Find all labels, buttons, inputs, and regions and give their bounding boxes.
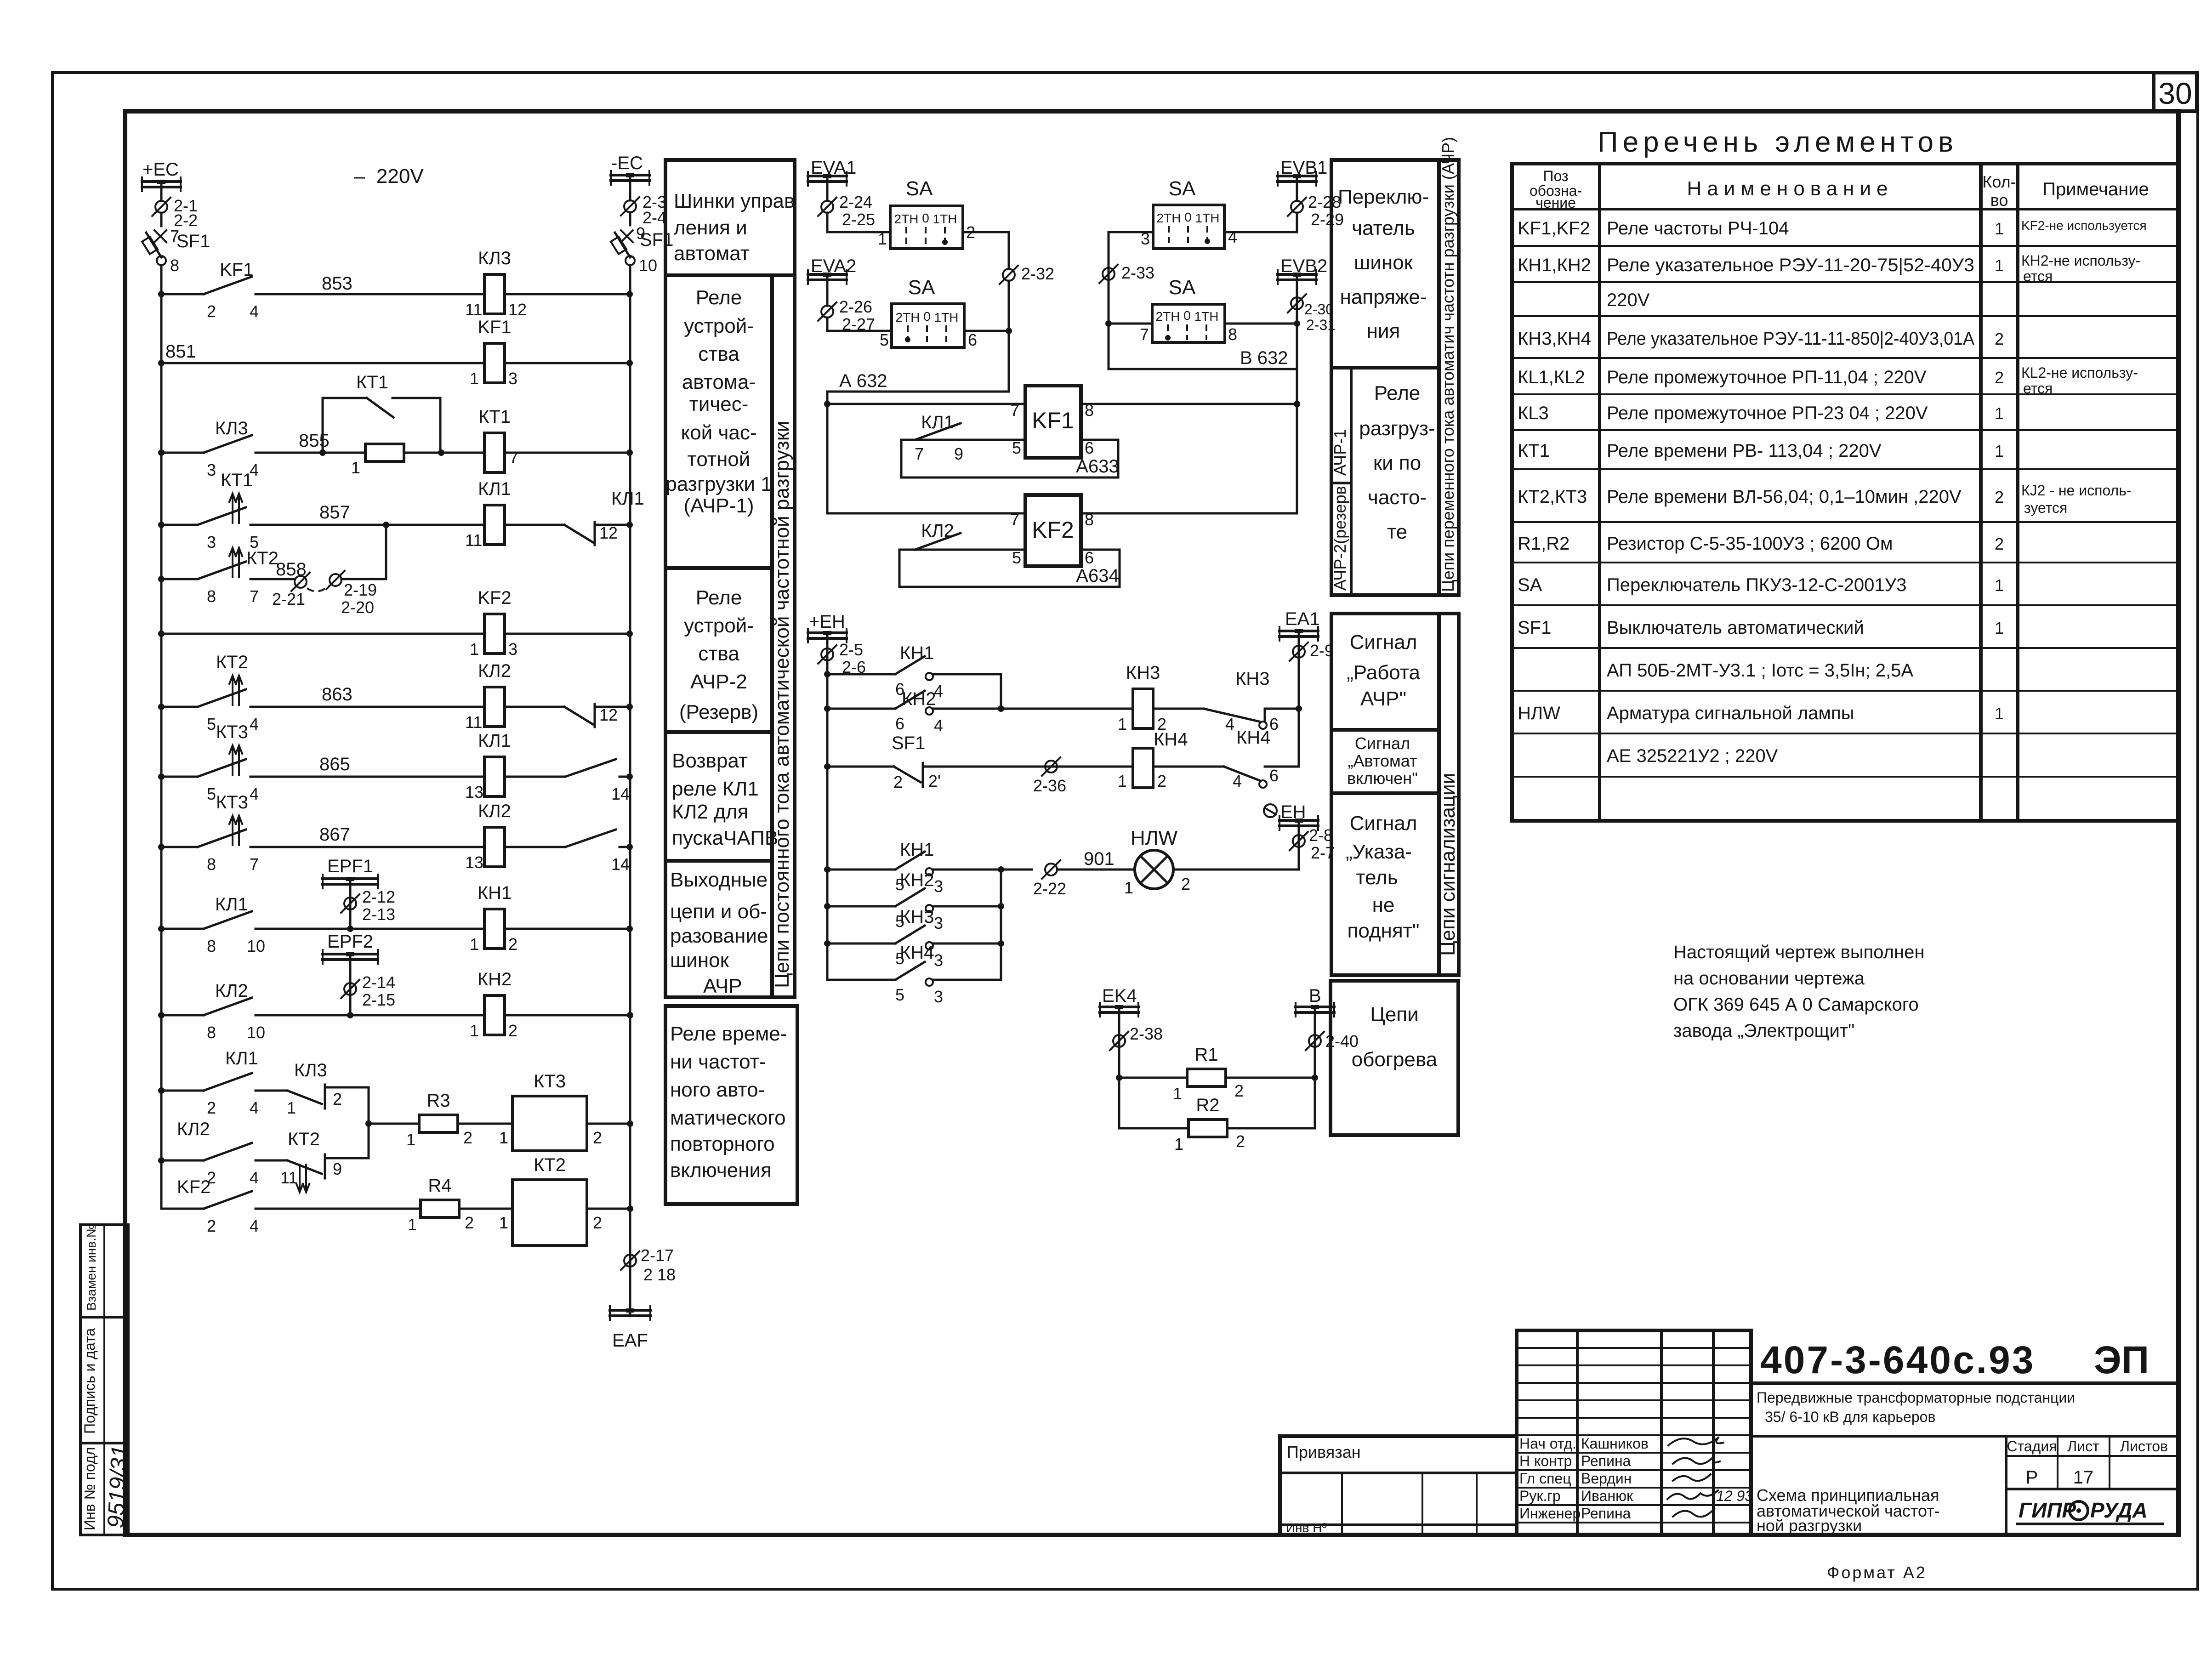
terminal circle 2-38 <box>1110 1024 1163 1050</box>
rung 865: timed contact KT3, coil KL1 13, make contact 14 <box>158 722 633 803</box>
terminal circle 2-22 and wire 901 <box>998 849 1135 980</box>
contact KH1 6-4 <box>824 643 1001 709</box>
rung: contact KL2 2-4, timed break contact KT2 11-9 <box>158 1119 342 1192</box>
node EVB2 bus terminal <box>1278 256 1327 513</box>
connector X9 <box>621 224 645 243</box>
relay coil KL2 <box>484 687 505 727</box>
svg-text:ной разгрузки: ной разгрузки <box>1757 1516 1862 1535</box>
node -EC bus terminal <box>611 153 649 200</box>
relay coil KL1 13 <box>484 757 505 796</box>
contact KH2 6-4 and rung to KH3 <box>824 689 1133 735</box>
node EK4 bus terminal <box>1100 986 1138 1128</box>
frequency relay box KF1 <box>1025 386 1081 458</box>
contact KH1 6-4 blade <box>895 656 925 674</box>
breaker SF1 (right) <box>611 230 673 275</box>
rung 857: timed contact KT1, coil KL1, break contact KL1 <box>158 470 644 579</box>
row KT1 <box>1518 441 2004 461</box>
svg-text:Передвижные трансформаторные п: Передвижные трансформаторные подстанции <box>1757 1389 2075 1406</box>
svg-text:Лист: Лист <box>2067 1438 2099 1455</box>
svg-text:Привязан: Привязан <box>1287 1443 1361 1461</box>
terminal circle 2-5 2-6 <box>818 640 866 676</box>
contact KL1 8-10 <box>204 911 252 929</box>
terminal circle 2-17 2-18 on bus tail <box>621 1246 676 1313</box>
break contact KL3 1-2 <box>287 1091 322 1104</box>
switch SA box 1-2 (1ТН) <box>890 206 963 249</box>
terminal circle 2-36 <box>1045 761 1057 773</box>
terminal circle 2-30 2-31 <box>1288 294 1336 333</box>
contact KH3 5-3 <box>824 907 1004 970</box>
terminal circle 2-8 2-7 <box>1290 826 1335 862</box>
left margin stamp: Взамен инв.№ <box>80 1224 128 1317</box>
section label box: Выходные цепи и образование шинок АЧР <box>665 861 772 997</box>
break contact KL2 12 <box>564 707 593 724</box>
wire В632 <box>1109 348 1297 369</box>
contact KF1 2-4 <box>204 277 252 294</box>
svg-text:Репина: Репина <box>1581 1453 1631 1469</box>
svg-text:Репина: Репина <box>1581 1505 1631 1522</box>
section label box: Шинки управления и автомат <box>665 160 795 275</box>
relay coil KL3 <box>484 274 505 314</box>
wire to switch SA (1ТН upper) <box>827 231 890 233</box>
svg-text:Вердин: Вердин <box>1581 1470 1632 1487</box>
contact KL2 8-10 <box>204 998 252 1015</box>
row KH1,KH2 <box>1518 252 2140 284</box>
vertical strip: Цепи сигнализации <box>1437 614 1459 975</box>
indicating relay coil KH4 <box>1133 748 1153 788</box>
svg-text:Рук.гр: Рук.гр <box>1519 1488 1561 1504</box>
svg-text:Стадия: Стадия <box>2007 1438 2057 1455</box>
rung: relay coil KF2 <box>158 588 633 659</box>
resistor (rung 855) <box>365 444 404 461</box>
timed contact KT3 8-7 <box>198 830 246 847</box>
title block: signatures table <box>1517 1330 1753 1535</box>
section label box: Сигнал Автомат включен <box>1331 730 1439 793</box>
rung 851: relay coil KF1 <box>158 317 633 388</box>
contact KH2 5-3 <box>824 870 1004 932</box>
row KH3,KH4 <box>1518 329 2004 349</box>
svg-text:Инженер: Инженер <box>1519 1505 1581 1522</box>
terminal circle 2-3 2-4 <box>621 193 666 227</box>
table header texts <box>1530 168 2149 211</box>
auxiliary contact SF1 2-2' <box>894 767 921 782</box>
note text <box>1673 942 1924 1041</box>
left margin stamp: Подпись и дата <box>80 1317 128 1443</box>
inner working frame <box>125 111 2178 1535</box>
timed contact KT2 5-4 <box>198 689 246 707</box>
rung 863: timed contact KT2, coil KL2, break contact 12 <box>158 652 633 733</box>
resistor R3 <box>419 1115 458 1132</box>
contact KL2 2-4 <box>204 1143 252 1160</box>
row KL3 <box>1518 403 2004 423</box>
terminal circles 2-19 2-20 <box>330 574 341 586</box>
section label box: Возврат реле KL1 KL2 для пуска ЧАПВ <box>665 732 778 861</box>
contact KH4 4-6 blade <box>1224 767 1259 780</box>
svg-text:35/ 6-10 кВ для карьеров: 35/ 6-10 кВ для карьеров <box>1765 1409 1935 1425</box>
resistor R2 branch <box>1119 1095 1315 1154</box>
wire with terminal circle 2-33 <box>1099 232 1154 369</box>
title block: document designation 407-3-640с.93 ЭП <box>1751 1330 2178 1535</box>
section label box: Сигнал Указатель не поднят <box>1331 793 1439 975</box>
contact KL2 <box>915 533 961 550</box>
signal lamp HLW <box>1124 827 1299 897</box>
title block: object name <box>1751 1389 2178 1436</box>
wire KF2 rung <box>827 512 1025 515</box>
contact KH3 5-3 blade <box>895 926 925 944</box>
wire SA2 to node <box>964 330 1009 332</box>
latch loop wire А633 <box>901 440 1118 477</box>
terminal circle 2-26 2-27 <box>818 297 875 334</box>
section label box: Цепи обогрева <box>1331 981 1458 1135</box>
page number box 30 <box>2154 73 2197 111</box>
time relay coil KT1 <box>484 433 505 472</box>
latch loop wire А634 <box>899 550 1120 587</box>
switch SA contact 5-6 <box>880 276 977 349</box>
relay coil KL2 13 <box>484 827 505 867</box>
svg-text:Гл спец: Гл спец <box>1519 1470 1571 1487</box>
signal lamp HLW circle <box>1135 850 1173 889</box>
svg-text:Н контр: Н контр <box>1519 1453 1572 1469</box>
rung 867: timed contact KT3, coil KL2 13, make contact 14 <box>158 792 633 874</box>
svg-text:Нач отд.: Нач отд. <box>1519 1435 1576 1452</box>
wire to switch SA (2ТН lower-left) <box>827 330 892 332</box>
breaker SF1 (left) <box>142 231 210 275</box>
wire to drop node <box>1081 403 1297 405</box>
switch SA contact 7-8 <box>1109 276 1300 344</box>
row SF1 <box>1518 618 2004 638</box>
title block: left attach table <box>1280 1436 1517 1535</box>
time relay KT3 <box>512 1096 587 1151</box>
switch SA box 3-4 (1ТН) <box>1153 205 1224 249</box>
make contact KL1 14 <box>565 759 616 777</box>
rung 853: contact KF1 + relay coil KL3 <box>158 248 633 321</box>
indicating relay coil KH3 <box>1133 689 1153 728</box>
contact KL3 3-4 <box>204 435 252 453</box>
row HLW <box>1518 703 2004 723</box>
switch SA contact 3-4 <box>1109 177 1297 249</box>
node EVA1 bus terminal <box>808 158 856 201</box>
relay coil KL1 <box>484 505 505 545</box>
svg-text:ГИПР: ГИПР <box>2019 1498 2076 1522</box>
vertical strip: Цепи переменного тока автоматич частотн разгрузки (АЧР) <box>1439 137 1459 595</box>
node B bus terminal <box>1296 986 1334 1128</box>
wire from SA1 to 2-32 <box>963 232 1009 269</box>
resistor R1 box <box>1187 1069 1226 1086</box>
svg-text:12 93: 12 93 <box>1716 1488 1753 1504</box>
terminal circle 2-9 <box>1290 641 1334 661</box>
timed contact KT2 8-7 <box>198 562 246 579</box>
make contact KL2 14 <box>565 830 616 847</box>
section label box: Реле устройства АЧР-1 <box>665 275 772 568</box>
rung: contact KF2 2-4, resistor R4, time relay KT2 <box>161 1155 633 1245</box>
title block: stage/sheet cells <box>2006 1436 2178 1535</box>
contact KH2 5-3 blade <box>895 888 925 906</box>
break contact KL1 12 <box>564 525 593 542</box>
break contact KT1 bypass <box>323 398 367 453</box>
svg-text:Иванюк: Иванюк <box>1581 1488 1633 1504</box>
rung: contact KL1 2-4, break contact KL3 1-2, resistor R3, time relay KT3 <box>158 1048 633 1158</box>
svg-text:РУДА: РУДА <box>2090 1498 2148 1522</box>
terminal circle 2-32 <box>1000 264 1054 392</box>
section label box: Переключатель шинок напряжения <box>1331 160 1439 368</box>
contact KF2 2-4 <box>204 1191 252 1209</box>
rung: contact KL1 8-10, flag EPF1, coil KH1 <box>158 856 633 955</box>
node +EC bus terminal <box>142 159 181 201</box>
contact KL1 7-9 <box>915 423 961 440</box>
relay coil KF2 <box>484 614 505 654</box>
row KF1,KF2 <box>1518 218 2147 239</box>
section label box: Реле разгрузки по частоте with АЧР-1 / АЧР-2 (резерв) substrip <box>1331 368 1439 595</box>
terminal circle 2-1 2-2 <box>152 196 198 230</box>
frequency relay KF2 with latch loop А634 <box>827 495 1297 587</box>
svg-text:Формат А2: Формат А2 <box>1827 1563 1927 1582</box>
frequency relay KF1 with latch loop А633 <box>827 386 1300 477</box>
title block: drawing name <box>1757 1486 1940 1535</box>
switch SA contact 1-2 <box>878 177 975 249</box>
vertical strip: Цепи постоянного тока автоматической частотной разгрузки <box>771 275 795 997</box>
node EA1 bus terminal <box>1279 609 1320 767</box>
row SA <box>1518 575 2004 595</box>
contact KH3 4-6 <box>1204 669 1302 733</box>
timed contact KT1 3-5 <box>198 507 246 525</box>
contact KH2 6-4 blade <box>895 691 925 709</box>
section label box: Реле устройства АЧР-2 (резерв) <box>665 568 772 732</box>
row KT2,KT3 <box>1518 482 2132 516</box>
connector X7 <box>154 227 179 245</box>
svg-text:17: 17 <box>2073 1467 2094 1488</box>
rung: contact KL2 8-10, flag EPF2, coil KH2 <box>158 932 633 1042</box>
terminal circle 2-28 2-29 <box>1288 193 1344 232</box>
node EVA2 bus terminal <box>808 256 856 306</box>
svg-text:Р: Р <box>2026 1467 2038 1488</box>
frequency relay box KF2 <box>1025 495 1081 566</box>
row R1,R2 <box>1518 534 2004 554</box>
resistor R1 branch <box>1116 1045 1318 1103</box>
indicating relay coil KH3 <box>1118 663 1204 733</box>
terminal circle 2-12 2-13 <box>344 898 356 909</box>
terminal circle 2-14 2-15 <box>344 983 356 995</box>
terminal circle 2-24 2-25 <box>818 193 875 232</box>
terminal circle 2-40 <box>1306 1032 1359 1051</box>
contact KL1 2-4 <box>204 1073 252 1091</box>
node +EH bus terminal <box>808 612 847 980</box>
relay coil KF1 <box>484 343 505 383</box>
element table grid <box>1512 164 2178 821</box>
svg-text:407-3-640с.93: 407-3-640с.93 <box>1760 1338 2035 1381</box>
svg-text:Инв Нº: Инв Нº <box>1286 1521 1327 1535</box>
terminal circle 2-21 <box>295 576 307 588</box>
section label box: Реле времени частотного автоматического повторного включения <box>665 1006 797 1204</box>
wire right -EC bus <box>629 265 631 1268</box>
contact KH4 5-3 <box>827 943 1001 1006</box>
time relay KT2 <box>512 1180 587 1245</box>
section label box: Сигнал Работа АЧР <box>1331 614 1439 730</box>
contact KH3 4-6 blade <box>1204 709 1259 722</box>
left margin stamp: Инв № подл with handwritten 9519/31 <box>80 1443 132 1535</box>
switch SA box 5-6 (2ТН) <box>892 304 964 347</box>
node EH bus terminal (lamp return) <box>1264 802 1318 870</box>
wire А632 <box>824 371 1009 513</box>
timed contact KT3 5-4 <box>198 759 246 777</box>
contact KH1 5-3 blade <box>895 852 925 870</box>
timed break contact KT2 11-9 <box>287 1160 322 1174</box>
contact KH1 5-3 on lamp rung <box>824 840 1032 896</box>
rung 858: timed contact KT2, terminal circles 2-21 2-19 2-20 <box>158 548 386 617</box>
node EAF bus terminal <box>610 1306 650 1351</box>
indicating relay coil KH2 <box>484 995 505 1035</box>
contact KH4 4-6 <box>1224 728 1299 790</box>
svg-text:ЭП: ЭП <box>2094 1338 2149 1381</box>
svg-text:Кашников: Кашников <box>1581 1435 1649 1452</box>
resistor R2 box <box>1188 1120 1227 1137</box>
wire left +EC bus <box>160 265 163 1209</box>
row KL1,KL2 <box>1518 364 2138 397</box>
contact KH4 5-3 blade <box>895 962 925 980</box>
switch SA box 7-8 (2ТН) <box>1152 304 1225 342</box>
contact SF1 2-2' with terminal 2-36 and coil KH4 <box>824 729 1224 795</box>
resistor R4 <box>421 1200 459 1217</box>
rung 855: contact KL3, resistor, KT1 bypass contact, coil KT1 <box>158 372 633 479</box>
node EVB1 bus terminal <box>1278 158 1327 201</box>
svg-text:Листов: Листов <box>2120 1438 2168 1455</box>
title block: GIPRORUDA logo <box>2018 1498 2163 1524</box>
indicating relay coil KH1 <box>484 909 505 949</box>
